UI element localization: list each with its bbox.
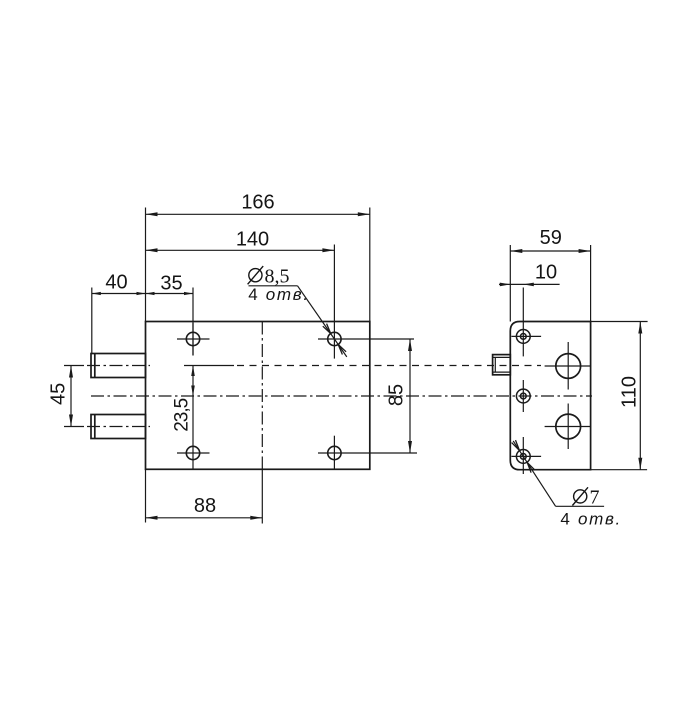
dimension 166 dim line (146, 213, 370, 215)
big hole lower vertical centremark (567, 404, 569, 450)
dimension 10 dim line with tails (499, 283, 560, 285)
svg-text:59: 59 (540, 227, 562, 249)
arrow 35 right (184, 292, 193, 295)
svg-text:4 отв.: 4 отв. (560, 510, 622, 529)
hole top-right vertical centremark / 140 extension (333, 245, 335, 359)
arrow 10 right outside (523, 283, 534, 287)
leader diagonal line Ø8,5 (298, 286, 347, 357)
big hole upper horizontal centremark (545, 365, 591, 367)
arrow 140 right (322, 248, 334, 252)
arrow leader Ø7 lower open V (527, 462, 535, 472)
svg-text:23,5: 23,5 (172, 398, 193, 431)
leader underline for Ø8,5 (249, 285, 298, 287)
hole top-right horizontal centremark / 85 extension (318, 338, 414, 340)
arrow 140 left (146, 248, 158, 252)
45 dim line (70, 366, 72, 427)
svg-text:88: 88 (194, 495, 216, 517)
upper stud (91, 354, 146, 378)
88 left extension down (145, 469, 147, 522)
arrow 40 left (92, 292, 101, 295)
hole bottom-right Ø8,5 (328, 446, 341, 459)
screw hole middle vertical centremark (522, 380, 524, 412)
arrow 45 top (69, 366, 73, 378)
svg-text:10: 10 (535, 261, 557, 283)
screw hole top outer (516, 330, 530, 344)
hole top-left vertical centremark (192, 323, 194, 356)
arrow 166 left (146, 212, 158, 216)
59 right extension up (590, 245, 592, 322)
svg-text:166: 166 (241, 192, 274, 214)
screw hole middle outer (516, 389, 530, 403)
screw hole bottom outer (516, 450, 530, 464)
hole top-left horizontal centremark (177, 338, 210, 340)
svg-text:35: 35 (160, 272, 182, 294)
arrow 35 left (146, 292, 155, 295)
screw hole middle inner (520, 393, 526, 399)
arrow 88 left (146, 516, 158, 520)
59 left extension up (509, 245, 511, 322)
arrow 85 bottom (408, 441, 412, 453)
right edge extension up (369, 208, 371, 322)
85 dim line (409, 339, 411, 453)
88 right extension solid below plate (261, 469, 263, 523)
hole top-left Ø8,5 (186, 332, 199, 345)
40 left extension (91, 288, 93, 354)
diameter symbol Ø7 (572, 487, 588, 505)
upper stud axis dash-dot (87, 365, 150, 367)
latch bolt (493, 355, 511, 375)
arrow leader Ø7 upper open V (512, 440, 520, 450)
leader underline for Ø7 (556, 505, 605, 507)
svg-text:140: 140 (236, 229, 269, 251)
45 upper extension (64, 365, 84, 367)
screw hole bottom horizontal centremark (511, 455, 541, 457)
45 lower extension (64, 426, 84, 428)
svg-text:85: 85 (386, 384, 408, 406)
dashed latch axis line between views (237, 365, 541, 367)
svg-text:45: 45 (48, 383, 70, 405)
latch inner top line (493, 356, 511, 358)
arrow 110 bottom (638, 458, 642, 470)
arrow 45 bottom (69, 415, 73, 427)
hole top-right Ø8,5 (328, 332, 341, 345)
left edge extension up (145, 208, 147, 322)
diameter symbol Ø8,5 (248, 266, 264, 284)
arrow leader Ø8,5 lower open V (338, 344, 346, 354)
arrow 166 right (358, 212, 370, 216)
arrow 23,5 bottom (191, 386, 195, 397)
arrow 85 top (408, 339, 412, 351)
arrow 88 right (250, 516, 262, 520)
svg-text:110: 110 (619, 376, 641, 408)
110 top extension (591, 321, 648, 323)
arrow 110 top (638, 322, 642, 334)
screw hole bottom inner (520, 454, 526, 460)
lower stud (91, 415, 146, 439)
arrow leader Ø8,5 upper open V (323, 324, 331, 334)
dimension 140 dim line (146, 249, 335, 251)
big hole lower horizontal centremark (545, 426, 591, 428)
vertical centre line of plate (dash-dot) (261, 322, 263, 470)
110 bottom extension (591, 469, 648, 471)
upper stud chamfer line (94, 354, 96, 378)
latch inner bottom line (493, 371, 511, 373)
23,5 upper extension line (184, 365, 234, 367)
latch inner left line (494, 357, 496, 372)
arrow 59 left (510, 249, 522, 253)
arrow 59 right (579, 249, 591, 253)
hole bottom-left Ø8,5 (186, 446, 199, 459)
main horizontal centre line (dash-dot) (91, 395, 592, 397)
big hole upper vertical centremark (567, 342, 569, 390)
dimension 88 dim line (146, 517, 263, 519)
dimension 110 dim line (639, 322, 641, 470)
screw hole bottom vertical centremark (522, 437, 524, 474)
35 right extension / hole axis / 23,5 dim line (192, 288, 194, 356)
screw hole top horizontal centremark (511, 335, 541, 337)
side view body (510, 322, 590, 470)
leader diagonal line Ø7 (513, 441, 555, 506)
dimension 59 dim line (510, 250, 590, 252)
screw hole top inner (520, 334, 526, 340)
svg-text:7: 7 (590, 487, 600, 509)
hole bottom-left horizontal centremark (177, 452, 210, 454)
lower stud axis dash-dot (87, 426, 150, 428)
big hole upper (556, 354, 581, 379)
svg-text:4 отв.: 4 отв. (248, 285, 310, 304)
front view plate outline (146, 322, 370, 470)
23,5 dim line lower part (192, 366, 194, 469)
big hole lower (556, 414, 581, 439)
svg-text:40: 40 (105, 271, 127, 293)
arrow 40 right (137, 292, 146, 295)
hole bottom-right vertical centremark (333, 436, 335, 469)
dimension 40-35 dim line (92, 293, 193, 295)
arrow 10 left outside (500, 283, 511, 287)
lower stud chamfer line (94, 415, 96, 439)
screw column vertical line / 10 extension (522, 288, 524, 357)
arrow 23,5 top (191, 366, 195, 377)
hole bottom-right horizontal centremark / 85 extension (318, 452, 417, 454)
